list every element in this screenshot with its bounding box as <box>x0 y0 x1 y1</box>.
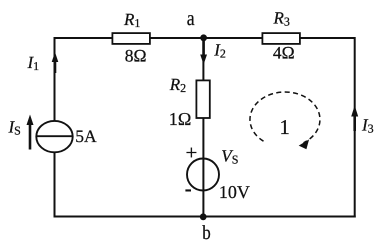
svg-text:10V: 10V <box>219 182 250 202</box>
voltage source Vs <box>187 159 219 191</box>
svg-text:+: + <box>185 140 197 164</box>
wire right <box>354 37 356 218</box>
svg-text:b: b <box>202 222 211 243</box>
svg-text:1: 1 <box>279 115 290 139</box>
mesh loop 1 dashed <box>250 92 320 143</box>
arrow I2 <box>202 41 205 57</box>
current source Is <box>36 121 72 152</box>
label minus <box>185 189 191 191</box>
resistor R1 <box>112 33 149 44</box>
svg-text:a: a <box>187 6 196 30</box>
svg-text:1Ω: 1Ω <box>169 109 192 129</box>
resistor R2 <box>196 80 209 118</box>
wire middle branch <box>202 38 204 217</box>
svg-text:8Ω: 8Ω <box>125 45 147 65</box>
wire bottom <box>54 216 356 218</box>
svg-text:5A: 5A <box>75 126 97 146</box>
arrow Is <box>29 124 32 150</box>
wire left <box>54 37 56 218</box>
node b <box>200 213 207 220</box>
arrow I3 <box>353 116 356 131</box>
resistor R3 <box>262 33 300 44</box>
current source Is bar <box>36 135 72 137</box>
node a <box>200 34 207 41</box>
arrow I1 <box>54 61 57 73</box>
wire top <box>55 37 355 39</box>
svg-text:4Ω: 4Ω <box>273 43 295 63</box>
